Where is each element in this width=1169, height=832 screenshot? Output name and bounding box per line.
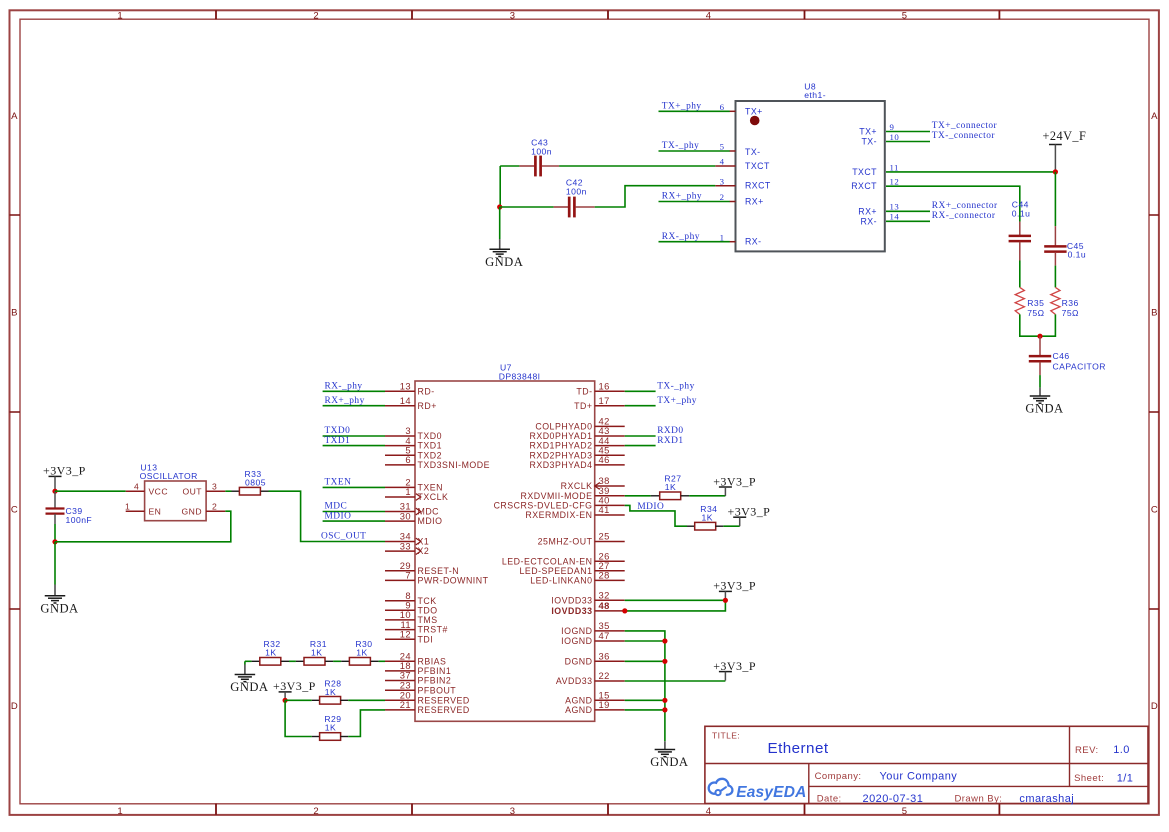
- svg-text:1: 1: [720, 232, 725, 242]
- resistor R34 1K: [687, 504, 723, 530]
- U7 pin 22 AVDD33: [595, 680, 625, 682]
- wire node down to GNDA: [499, 207, 501, 239]
- junction IOVDD33 node: [723, 598, 728, 603]
- U7 pin 1 TXCLK: [385, 496, 415, 498]
- U7 pin 8 TCK: [385, 600, 415, 602]
- U13 pin 2 GND: [206, 510, 225, 512]
- svg-text:TDI: TDI: [418, 634, 434, 644]
- U7 pin 2 TXEN: [385, 486, 415, 488]
- U7 pin 16 TD-: [595, 390, 625, 392]
- svg-text:RD+: RD+: [418, 401, 437, 411]
- wire node to R29: [285, 700, 312, 736]
- wire node to R28: [285, 699, 312, 701]
- svg-text:10: 10: [890, 132, 900, 142]
- svg-text:2020-07-31: 2020-07-31: [863, 793, 924, 805]
- power flag +3V3_P (C39/U13): [43, 464, 86, 492]
- svg-text:R35: R35: [1027, 298, 1044, 308]
- svg-text:1.0: 1.0: [1113, 744, 1130, 756]
- wire C43 to U8 pin 4: [559, 165, 715, 167]
- svg-text:IOGND: IOGND: [561, 636, 592, 646]
- junction pin47 node: [662, 638, 667, 643]
- svg-text:4: 4: [134, 481, 139, 491]
- U7 pin 31 MDC: [385, 511, 415, 513]
- svg-text:+3V3_P: +3V3_P: [713, 579, 756, 593]
- svg-text:RXERMDIX-EN: RXERMDIX-EN: [525, 510, 592, 520]
- U7 pin 43 RXD0PHYAD1: [595, 435, 625, 437]
- svg-text:RD-: RD-: [418, 386, 435, 396]
- svg-text:6: 6: [405, 454, 411, 465]
- U7 pin 14 RD+: [385, 405, 415, 407]
- svg-text:14: 14: [890, 212, 900, 222]
- svg-text:9: 9: [890, 122, 895, 132]
- svg-text:MDIO: MDIO: [637, 502, 664, 512]
- junction U13 VCC node: [52, 489, 57, 494]
- U7 pin 44 RXD1PHYAD2: [595, 445, 625, 447]
- U7 pin 30 MDIO: [385, 520, 415, 522]
- svg-text:TX-_phy: TX-_phy: [657, 382, 695, 392]
- svg-text:PFBIN2: PFBIN2: [418, 676, 452, 686]
- svg-text:0805: 0805: [245, 478, 266, 488]
- wire net RXD1 from U7: [625, 445, 656, 447]
- svg-text:Company:: Company:: [815, 771, 862, 782]
- wire net TX+_connector: [886, 131, 930, 133]
- ground GNDA (near R32): [230, 665, 268, 695]
- svg-text:11: 11: [890, 162, 899, 172]
- wire pin39 to R27: [625, 495, 651, 497]
- wire R27 to +3V3_P: [689, 495, 725, 497]
- svg-text:RX+_phy: RX+_phy: [662, 192, 702, 202]
- svg-text:COLPHYAD0: COLPHYAD0: [535, 422, 592, 432]
- svg-text:RX+_phy: RX+_phy: [325, 396, 365, 406]
- svg-text:100n: 100n: [566, 186, 587, 196]
- wire pin48 to +3V3_P: [625, 600, 726, 611]
- svg-text:RXDVMII-MODE: RXDVMII-MODE: [521, 491, 593, 501]
- U8 pin 2 RX+: [730, 201, 736, 203]
- ground GNDA (under U7): [650, 741, 688, 769]
- ground GNDA (bottom left): [40, 585, 78, 616]
- U7 pin 28 LED-LINKAN0: [595, 579, 625, 581]
- svg-text:16: 16: [599, 381, 610, 392]
- resistor R27 1K: [651, 473, 690, 499]
- connector U8 eth1-: [715, 82, 899, 252]
- wire U13 OUT to R33: [225, 490, 231, 492]
- svg-text:DGND: DGND: [565, 656, 593, 666]
- U8 pin 6 TX+: [730, 110, 736, 112]
- svg-text:14: 14: [400, 395, 411, 406]
- U7 pin 9 TDO: [385, 609, 415, 611]
- svg-text:TX+_connector: TX+_connector: [932, 121, 998, 131]
- svg-text:LED-LINKAN0: LED-LINKAN0: [530, 576, 592, 586]
- svg-text:75Ω: 75Ω: [1027, 308, 1044, 318]
- svg-text:25: 25: [599, 531, 610, 542]
- svg-text:21: 21: [400, 699, 411, 710]
- wire U13 GND to GNDA rail: [55, 511, 231, 542]
- svg-text:X1: X1: [418, 537, 430, 547]
- svg-text:EN: EN: [149, 506, 162, 516]
- wire C46 to GNDA: [1039, 375, 1041, 388]
- wire pin36 to rail: [625, 660, 665, 662]
- svg-text:Sheet:: Sheet:: [1074, 773, 1104, 784]
- svg-text:1: 1: [125, 501, 130, 511]
- U7 pin 13 RD-: [385, 390, 415, 392]
- resistor R33 0805: [232, 469, 269, 495]
- svg-text:1/1: 1/1: [1117, 773, 1134, 785]
- svg-text:1: 1: [405, 486, 411, 497]
- wire wire +24V to C45: [1054, 172, 1056, 226]
- title block: [705, 726, 1148, 805]
- resistor R35 75ohm zigzag: [1015, 287, 1024, 314]
- wire net TX-_phy from U7: [625, 390, 656, 392]
- svg-text:RX-_phy: RX-_phy: [662, 232, 700, 242]
- svg-text:+24V_F: +24V_F: [1043, 129, 1087, 143]
- svg-text:eth1-: eth1-: [804, 90, 826, 100]
- svg-text:TX-: TX-: [861, 137, 877, 147]
- svg-text:5: 5: [902, 10, 908, 21]
- wire pin19 to rail: [625, 709, 665, 711]
- svg-text:19: 19: [599, 699, 610, 710]
- svg-text:4: 4: [706, 806, 712, 817]
- svg-text:RESET-N: RESET-N: [418, 566, 460, 576]
- wire net RXD0 from U7: [625, 435, 656, 437]
- wire C39 to GNDA rail: [54, 524, 56, 542]
- wire net TX+_phy from U7: [625, 405, 656, 407]
- svg-text:12: 12: [400, 628, 411, 639]
- resistor R36 75ohm zigzag: [1051, 287, 1060, 314]
- power flag +3V3_P (AVDD33): [713, 659, 756, 681]
- wire net TX-_connector: [886, 141, 930, 143]
- U7 pin 3 TXD0: [385, 435, 415, 437]
- svg-text:TXD1: TXD1: [325, 436, 351, 446]
- U7 pin 26 LED-ECTCOLAN-EN: [595, 560, 625, 562]
- svg-text:B: B: [1151, 307, 1158, 318]
- junction pin48 junction: [622, 608, 627, 613]
- svg-text:D: D: [11, 701, 18, 712]
- svg-text:MDIO: MDIO: [418, 516, 443, 526]
- svg-text:13: 13: [400, 381, 411, 392]
- wire net RX+_phy to U8: [659, 201, 730, 203]
- svg-text:OUT: OUT: [183, 486, 203, 496]
- U7 pin 29 RESET-N: [385, 570, 415, 572]
- svg-text:GND: GND: [182, 506, 202, 516]
- svg-text:GNDA: GNDA: [40, 601, 78, 615]
- resistor R28 1K: [312, 679, 348, 705]
- svg-text:28: 28: [599, 570, 610, 581]
- wire net TXD0 to U7: [323, 435, 385, 437]
- svg-text:RX-: RX-: [861, 216, 878, 226]
- svg-text:RBIAS: RBIAS: [418, 656, 447, 666]
- junction pin15 node: [662, 698, 667, 703]
- svg-text:TXCLK: TXCLK: [418, 492, 449, 502]
- resistor R31 1K: [296, 639, 333, 665]
- svg-text:TX+: TX+: [859, 127, 877, 137]
- svg-text:OSC_OUT: OSC_OUT: [321, 532, 366, 542]
- wire net RX-_phy to U7: [323, 390, 385, 392]
- svg-text:1K: 1K: [325, 687, 336, 697]
- wire R28 to pin20: [348, 699, 385, 701]
- svg-text:5: 5: [720, 142, 725, 152]
- svg-text:TITLE:: TITLE:: [712, 731, 740, 741]
- resistor R32 1K: [252, 639, 289, 665]
- svg-text:RX-_connector: RX-_connector: [932, 211, 996, 221]
- wire net TX-_phy to U8: [659, 150, 730, 152]
- svg-text:TD+: TD+: [574, 401, 592, 411]
- wire GNDA to R32: [245, 660, 252, 662]
- svg-text:RXD0PHYAD1: RXD0PHYAD1: [529, 431, 592, 441]
- svg-text:IOVDD33: IOVDD33: [551, 606, 592, 616]
- svg-text:DP83848I: DP83848I: [499, 371, 541, 381]
- U7 pin 45 RXD2PHYAD3: [595, 454, 625, 456]
- svg-text:RXD1: RXD1: [657, 436, 683, 446]
- svg-text:Your Company: Your Company: [880, 771, 958, 783]
- ground GNDA (under C43/C42): [485, 239, 523, 269]
- U7 pin 12 TDI: [385, 638, 415, 640]
- svg-text:2: 2: [313, 10, 319, 21]
- svg-text:TXD1: TXD1: [418, 441, 443, 451]
- U7 pin 37 PFBIN2: [385, 680, 415, 682]
- svg-text:EasyEDA: EasyEDA: [736, 784, 806, 801]
- power flag +3V3_P (R28): [273, 679, 316, 700]
- svg-text:PWR-DOWNINT: PWR-DOWNINT: [418, 576, 489, 586]
- power flag +3V3_P (near R27): [713, 474, 756, 496]
- svg-text:TX+_phy: TX+_phy: [662, 102, 702, 112]
- svg-text:IOGND: IOGND: [561, 626, 592, 636]
- svg-text:B: B: [11, 307, 18, 318]
- U7 pin 38 RXCLK: [595, 485, 625, 487]
- wire pin15 to rail: [625, 699, 665, 701]
- svg-text:41: 41: [599, 504, 610, 515]
- wire rail to GNDA flag: [54, 542, 56, 585]
- svg-text:X2: X2: [418, 546, 430, 556]
- wire net RXCT_connector to C44: [886, 186, 1020, 221]
- svg-text:46: 46: [599, 454, 610, 465]
- svg-text:R36: R36: [1062, 298, 1079, 308]
- junction R28/R29 node: [283, 698, 288, 703]
- svg-text:Date:: Date:: [817, 794, 842, 805]
- wire net RX+_connector: [886, 210, 930, 212]
- svg-text:+3V3_P: +3V3_P: [728, 505, 771, 519]
- svg-text:32: 32: [599, 590, 610, 601]
- svg-text:1K: 1K: [356, 647, 367, 657]
- svg-text:22: 22: [599, 670, 610, 681]
- svg-text:IOVDD33: IOVDD33: [551, 595, 592, 605]
- svg-text:1K: 1K: [311, 647, 322, 657]
- U7 pin 7 PWR-DOWNINT: [385, 579, 415, 581]
- U7 pin 25 25MHZ-OUT: [595, 541, 625, 543]
- svg-text:TX-: TX-: [745, 147, 761, 157]
- svg-text:TXEN: TXEN: [325, 478, 352, 488]
- U7 pin 32 IOVDD33: [595, 599, 625, 601]
- svg-text:cmarashaj: cmarashaj: [1019, 793, 1074, 805]
- svg-text:36: 36: [599, 651, 610, 662]
- EasyEDA logo: [709, 779, 807, 801]
- wire C44 to R35: [1019, 261, 1021, 288]
- svg-text:A: A: [11, 111, 18, 122]
- svg-text:AVDD33: AVDD33: [556, 676, 593, 686]
- svg-text:TXD3SNI-MODE: TXD3SNI-MODE: [418, 460, 490, 470]
- U7 pin 48 IOVDD33: [595, 610, 625, 612]
- U7 pin 6 TXD3SNI-MODE: [385, 464, 415, 466]
- svg-text:TXEN: TXEN: [418, 483, 443, 493]
- svg-text:Drawn By:: Drawn By:: [955, 794, 1003, 805]
- wire net RX-_connector: [886, 220, 930, 222]
- capacitor C43 100n: [519, 137, 559, 176]
- svg-text:2: 2: [720, 192, 725, 202]
- resistor R30 1K: [341, 639, 378, 665]
- svg-text:RXCLK: RXCLK: [561, 481, 593, 491]
- svg-text:RX+_connector: RX+_connector: [932, 201, 998, 211]
- svg-text:33: 33: [400, 540, 411, 551]
- junction pin36 node: [662, 659, 667, 664]
- svg-text:30: 30: [400, 510, 411, 521]
- wire net TX+_phy to U8: [659, 110, 730, 112]
- svg-text:CRSCRS-DVLED-CFG: CRSCRS-DVLED-CFG: [494, 501, 593, 511]
- power flag +3V3_P (near R34): [728, 505, 771, 527]
- svg-text:RX-_phy: RX-_phy: [325, 382, 363, 392]
- svg-text:1K: 1K: [702, 512, 713, 522]
- svg-text:13: 13: [890, 202, 900, 212]
- wire net OSC_OUT R33 to X1: [269, 491, 386, 541]
- wire R35/R36 bottoms to node: [1020, 314, 1056, 336]
- capacitor C42 100n: [554, 177, 595, 217]
- wire net MDIO to U7: [323, 520, 385, 522]
- svg-text:Ethernet: Ethernet: [768, 740, 829, 757]
- wire pin47 to rail: [625, 640, 665, 642]
- svg-text:RXD0: RXD0: [657, 426, 683, 436]
- svg-text:6: 6: [720, 102, 725, 112]
- svg-text:TXD0: TXD0: [418, 431, 443, 441]
- svg-text:GNDA: GNDA: [1025, 402, 1063, 416]
- U7 pin 33 X2: [385, 550, 415, 552]
- svg-text:TX+: TX+: [745, 106, 763, 116]
- svg-text:+3V3_P: +3V3_P: [43, 464, 86, 478]
- svg-text:GNDA: GNDA: [230, 680, 268, 694]
- U7 pin 23 PFBOUT: [385, 689, 415, 691]
- wire vert to C42 node: [499, 166, 501, 207]
- svg-text:TD-: TD-: [576, 386, 592, 396]
- U7 pin 36 DGND: [595, 660, 625, 662]
- U7 pin 47 IOGND: [595, 640, 625, 642]
- svg-text:TX-_connector: TX-_connector: [932, 131, 996, 141]
- svg-text:0.1u: 0.1u: [1068, 250, 1087, 260]
- svg-text:TMS: TMS: [418, 615, 438, 625]
- power flag +3V3_P (IOVDD33): [713, 579, 756, 601]
- oscillator U13: [125, 463, 225, 521]
- svg-text:RXCT: RXCT: [745, 181, 771, 191]
- svg-text:TX-_phy: TX-_phy: [662, 141, 700, 151]
- svg-text:RXD3PHYAD4: RXD3PHYAD4: [529, 460, 592, 470]
- wire R32 to GNDA: [244, 661, 246, 664]
- svg-text:1K: 1K: [325, 723, 336, 733]
- svg-text:+3V3_P: +3V3_P: [713, 474, 756, 488]
- svg-text:RX-: RX-: [745, 237, 762, 247]
- wire R32-R31: [289, 660, 296, 662]
- wire R29 to pin21: [348, 710, 385, 737]
- U7 pin 20 RESERVED: [385, 699, 415, 701]
- svg-text:LED-ECTCOLAN-EN: LED-ECTCOLAN-EN: [502, 556, 593, 566]
- svg-text:TXD0: TXD0: [325, 426, 351, 436]
- svg-text:1: 1: [117, 806, 123, 817]
- svg-text:C: C: [11, 504, 18, 515]
- svg-text:25MHZ-OUT: 25MHZ-OUT: [538, 537, 593, 547]
- svg-text:MDC: MDC: [325, 502, 348, 512]
- svg-text:TRST#: TRST#: [418, 625, 448, 635]
- svg-text:VCC: VCC: [149, 486, 169, 496]
- wire net RX+_phy to U7: [323, 405, 385, 407]
- svg-text:0.1u: 0.1u: [1012, 209, 1031, 219]
- U7 pin 17 TD+: [595, 405, 625, 407]
- svg-text:RX+: RX+: [858, 206, 877, 216]
- wire GNDA rail to C43: [500, 165, 519, 167]
- wire R31-R30: [333, 660, 341, 662]
- svg-text:47: 47: [599, 630, 610, 641]
- junction C42/C43/GNDA node: [497, 204, 502, 209]
- U7 pin 34 X1: [385, 541, 415, 543]
- svg-text:3: 3: [212, 481, 217, 491]
- svg-text:1: 1: [117, 10, 123, 21]
- wire net MDC to U7: [323, 511, 385, 513]
- svg-text:OSCILLATOR: OSCILLATOR: [140, 471, 198, 481]
- U7 pin 46 RXD3PHYAD4: [595, 464, 625, 466]
- svg-text:12: 12: [890, 177, 900, 187]
- U7 pin 42 COLPHYAD0: [595, 425, 625, 427]
- U8 pin 3 RXCT: [715, 185, 735, 187]
- svg-text:3: 3: [510, 806, 516, 817]
- wire net MDIO pin40 to R34: [625, 505, 687, 526]
- U13 pin 3 OUT: [206, 490, 225, 492]
- svg-text:TCK: TCK: [418, 596, 437, 606]
- U7 pin 41 RXERMDIX-EN: [595, 514, 625, 516]
- wire R34 to +3V3_P: [723, 525, 739, 527]
- U7 pin 4 TXD1: [385, 445, 415, 447]
- svg-text:75Ω: 75Ω: [1062, 308, 1079, 318]
- svg-text:C: C: [1151, 504, 1158, 515]
- capacitor C46 CAPACITOR: [1029, 336, 1106, 375]
- capacitor C39 100nF: [46, 491, 93, 525]
- svg-text:RXD2PHYAD3: RXD2PHYAD3: [529, 450, 592, 460]
- U7 pin 5 TXD2: [385, 454, 415, 456]
- svg-text:RESERVED: RESERVED: [418, 695, 470, 705]
- wire pin32 to +3V3_P: [625, 599, 726, 601]
- svg-text:1K: 1K: [665, 482, 676, 492]
- U8 pin 5 TX-: [730, 150, 736, 152]
- U7 pin 18 PFBIN1: [385, 670, 415, 672]
- svg-text:MDIO: MDIO: [325, 511, 352, 521]
- svg-text:100n: 100n: [531, 146, 552, 156]
- junction R35/R36/C46 node: [1037, 334, 1042, 339]
- ground GNDA (under C46): [1025, 388, 1063, 416]
- resistor R29 1K: [312, 714, 348, 740]
- U7 pin 39 RXDVMII-MODE: [595, 495, 625, 497]
- wire C45 to R36: [1054, 266, 1056, 288]
- U7 pin 21 RESERVED: [385, 709, 415, 711]
- U8 polarity dot: [750, 116, 760, 126]
- wire net RX-_phy to U8: [659, 241, 730, 243]
- power flag +24V_F: [1043, 129, 1087, 172]
- wire net TXCT_connector to +24V node: [886, 171, 1055, 173]
- svg-text:2: 2: [212, 501, 217, 511]
- U7 pin 40 CRSCRS-DVLED-CFG: [595, 504, 625, 506]
- IC U7 DP83848I: [385, 362, 625, 721]
- wire +3V3 to U13 VCC: [55, 490, 126, 492]
- capacitor C44 0.1u: [1009, 200, 1031, 261]
- svg-text:AGND: AGND: [565, 705, 592, 715]
- junction +24V_F node: [1053, 169, 1058, 174]
- U7 pin 24 RBIAS: [385, 660, 415, 662]
- svg-text:100nF: 100nF: [66, 515, 93, 525]
- U7 pin 27 LED-SPEEDAN1: [595, 570, 625, 572]
- U7 pin 19 AGND: [595, 709, 625, 711]
- svg-text:A: A: [1151, 111, 1158, 122]
